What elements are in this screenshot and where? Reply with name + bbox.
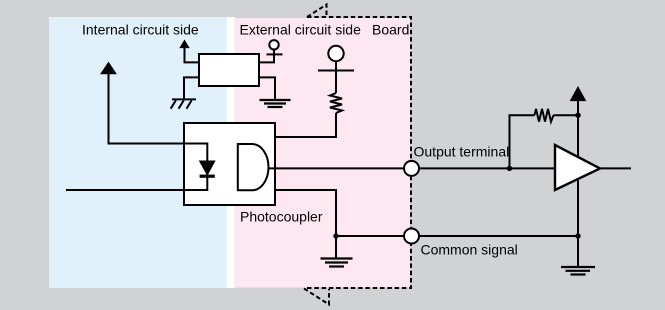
wire: photocoupler output to output terminal and buffer bbox=[269, 167, 556, 169]
board break mark bottom bbox=[304, 289, 329, 305]
terminal: converter output (circle and bar) bbox=[267, 40, 283, 54]
wire: pull-up loop left side bbox=[510, 115, 535, 168]
earth ground (amp) bbox=[561, 267, 595, 275]
wire: photocoupler emitter to common node bbox=[275, 190, 336, 258]
board dashed outline bbox=[305, 17, 411, 288]
svg-text:Internal circuit side: Internal circuit side bbox=[82, 22, 199, 38]
DC/DC converter box U1 bbox=[199, 54, 259, 86]
svg-text:Photocoupler: Photocoupler bbox=[240, 209, 323, 225]
wire: converter left-bottom to chassis ground bbox=[184, 77, 199, 99]
resistor R2 (horizontal) bbox=[535, 109, 554, 122]
svg-text:External circuit side: External circuit side bbox=[240, 22, 362, 38]
svg-text:Board: Board bbox=[372, 22, 409, 38]
LED diode D1 (photocoupler input) bbox=[200, 161, 215, 176]
resistor R1 (external pull-up, vertical) bbox=[330, 93, 342, 113]
terminal: external supply (circle and bar) bbox=[318, 46, 354, 93]
power arrow external supply bbox=[571, 87, 586, 101]
svg-text:Output terminal: Output terminal bbox=[414, 144, 510, 160]
internal circuit side region bbox=[49, 17, 227, 288]
terminal: Common signal circle bbox=[404, 229, 419, 244]
junction: supply node dot bbox=[575, 113, 580, 118]
wire: internal supply riser to converter bbox=[185, 47, 200, 63]
junction: common node dot bbox=[333, 233, 338, 238]
photodetector D shape bbox=[238, 144, 269, 190]
wire: resistor to supply node bbox=[554, 114, 579, 116]
power arrow internal (LED side) bbox=[101, 63, 116, 74]
wire: LED cathode to internal circuit bbox=[66, 176, 207, 190]
wire: converter right-bottom to earth ground bbox=[259, 77, 275, 99]
earth ground (common) bbox=[321, 259, 353, 267]
photocoupler PC1 box bbox=[184, 123, 275, 205]
junction: common at amp dot bbox=[575, 233, 580, 238]
board break mark top bbox=[307, 5, 327, 18]
chassis ground (internal) bbox=[171, 99, 196, 108]
wire: common line to terminal and amp ground bbox=[336, 235, 578, 237]
svg-text:Common signal: Common signal bbox=[421, 242, 518, 258]
earth ground (converter) bbox=[260, 100, 291, 107]
wire: supply rail vertical bbox=[577, 100, 579, 267]
wire: internal circuit to LED anode bbox=[109, 72, 208, 162]
wire: buffer output bbox=[600, 167, 631, 169]
buffer amplifier U2 bbox=[555, 145, 600, 190]
power arrow internal supply bbox=[180, 41, 189, 48]
junction: output node dot bbox=[507, 166, 512, 171]
wire: converter right-top to terminal bbox=[259, 49, 274, 62]
gap strip between regions bbox=[227, 17, 235, 288]
external circuit side region bbox=[235, 18, 410, 288]
wire: resistor to photocoupler collector bbox=[275, 113, 336, 137]
terminal: Output terminal circle bbox=[404, 161, 419, 176]
